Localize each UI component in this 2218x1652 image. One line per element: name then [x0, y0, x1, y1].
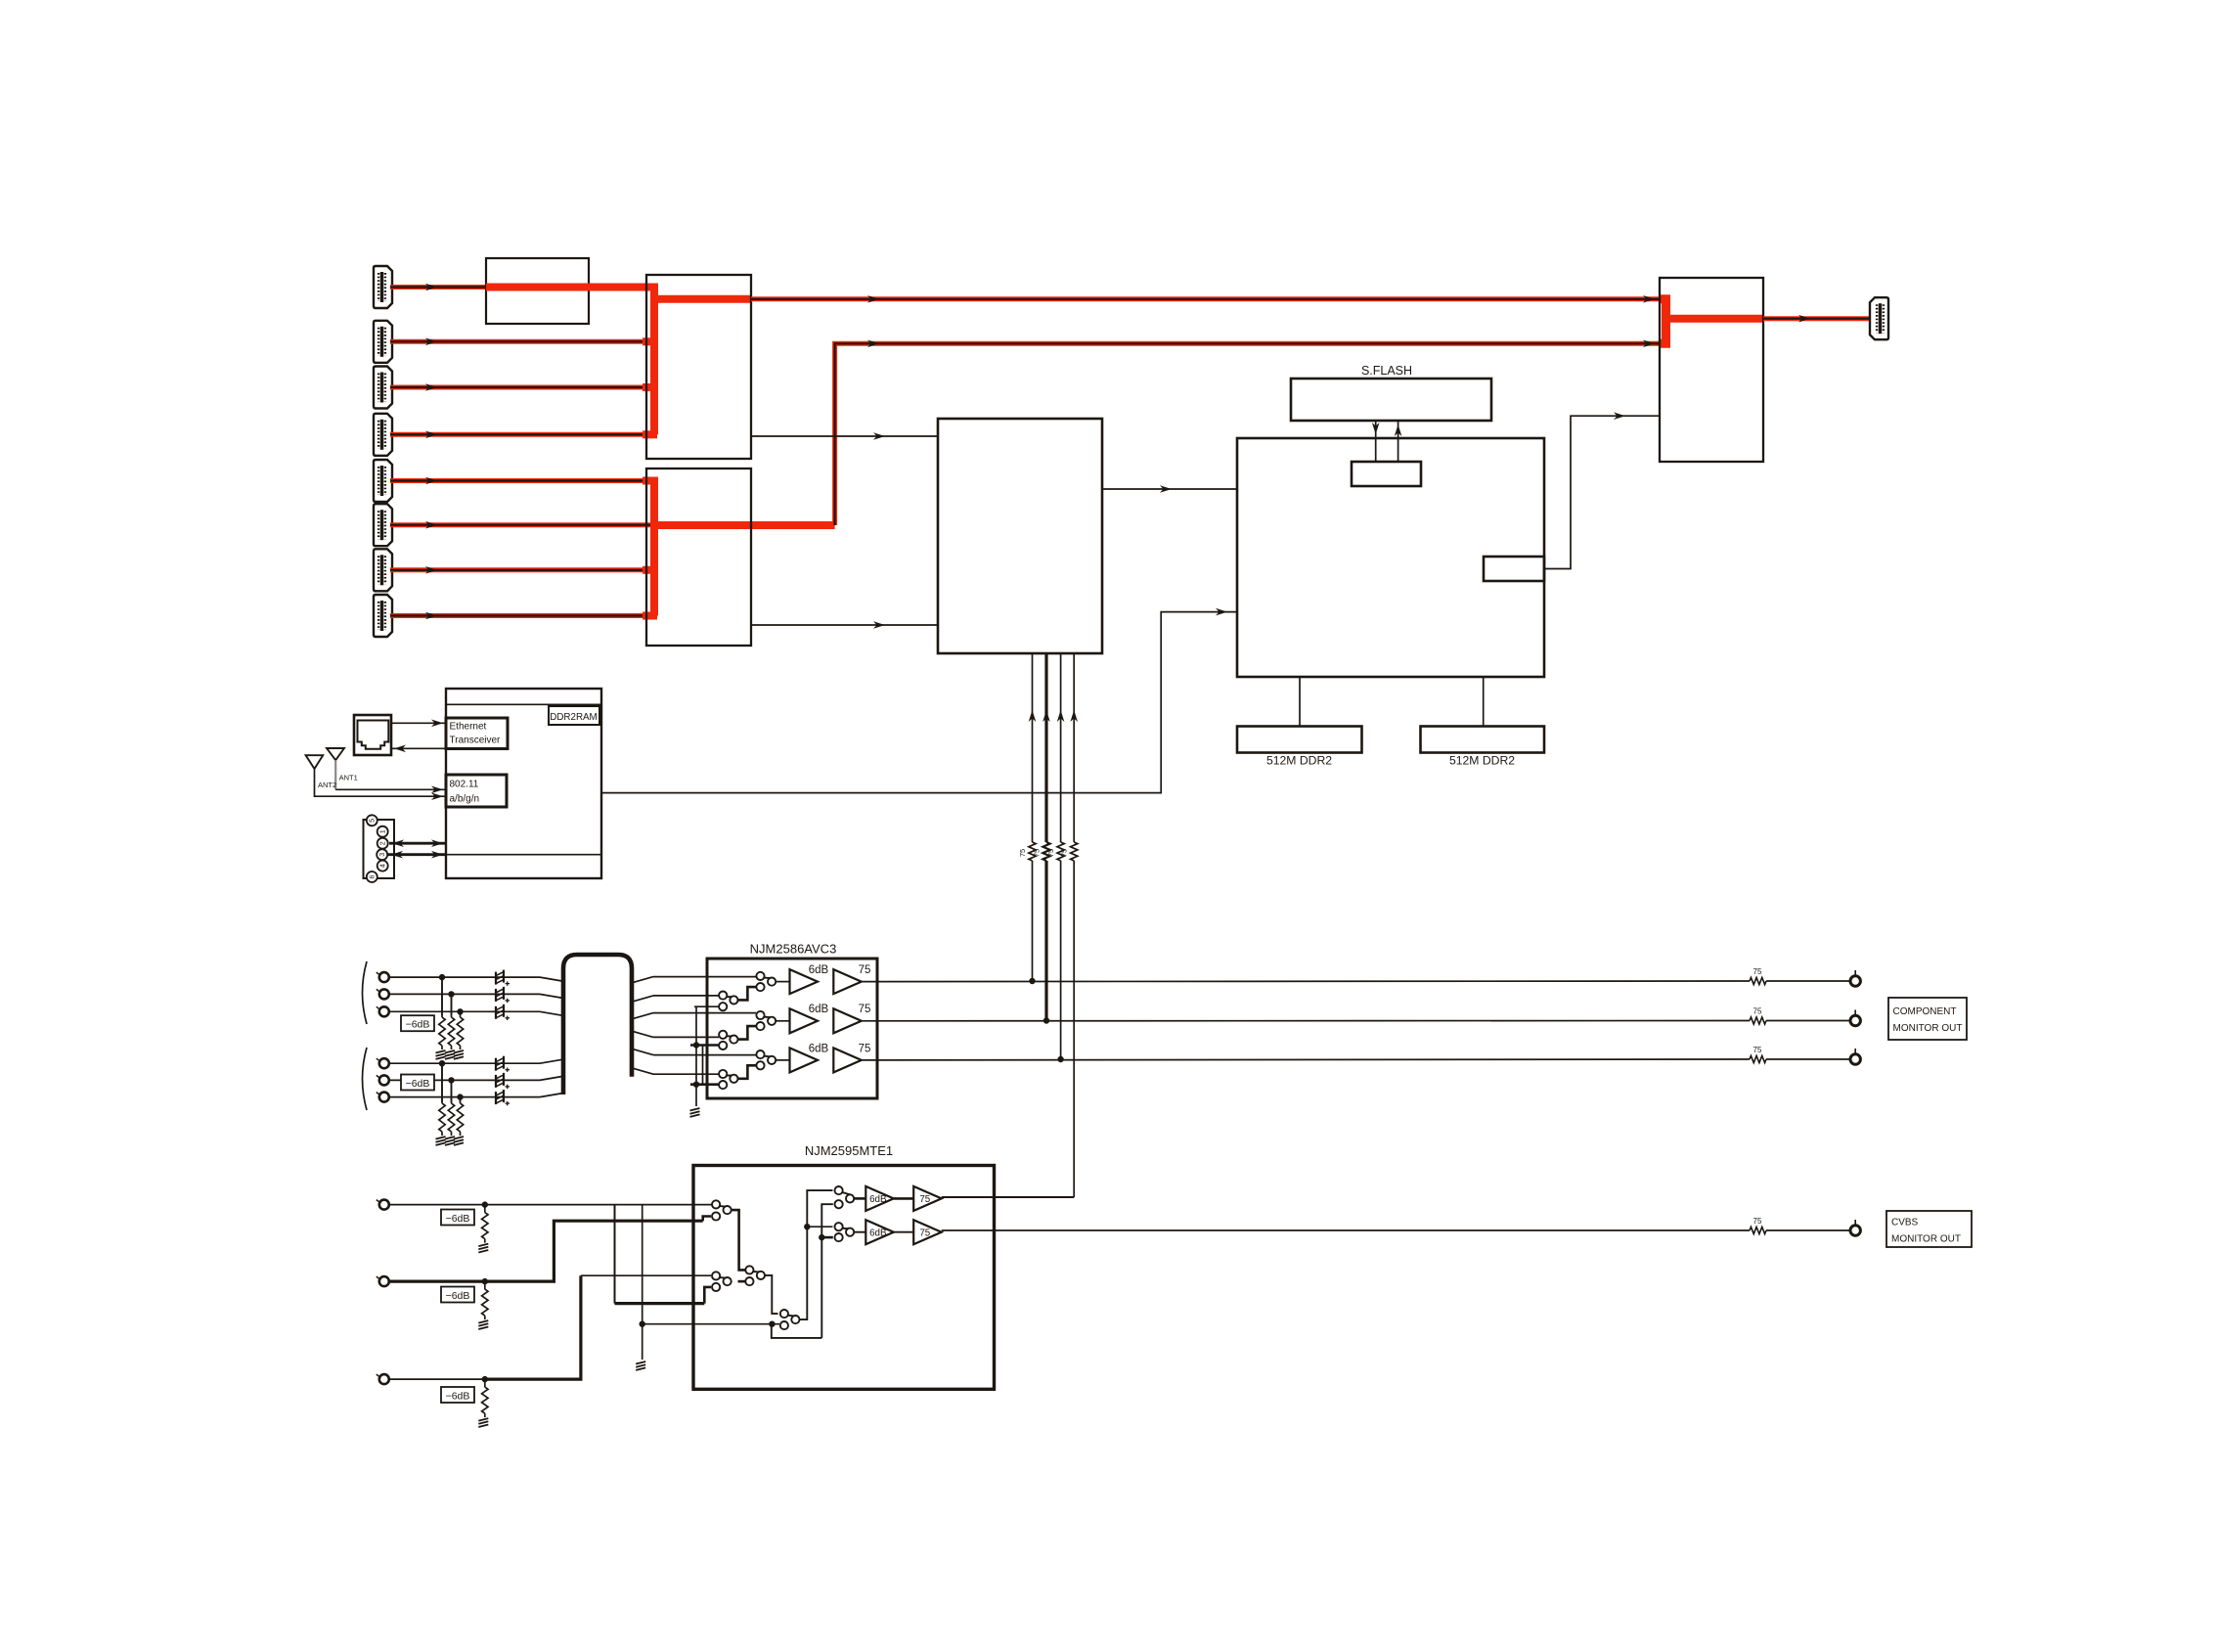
shield symbol line 3 [496, 1005, 510, 1020]
svg-text:ANT2: ANT2 [318, 781, 336, 789]
label NJM2586AVC3 [750, 942, 837, 957]
wire U1 to RX U3 [751, 432, 938, 440]
CVBS input line 2 [389, 1217, 711, 1282]
HDMI input connector J8 [374, 595, 392, 637]
HDMI input connector J6 [374, 504, 392, 546]
HDMI input connector J4 [374, 414, 392, 456]
wire network module to SoC [601, 608, 1237, 793]
HDMI TX U5 [1660, 278, 1763, 462]
CVBS termination resistor 3 [478, 1376, 488, 1427]
red bus in switch U1 [486, 288, 751, 435]
antenna ANT1 [327, 748, 446, 793]
svg-text:DDR2RAM: DDR2RAM [550, 712, 597, 723]
component input terminal 3 [377, 1006, 389, 1016]
svg-text:−6dB: −6dB [406, 1078, 430, 1090]
wire poleA to swC [732, 1210, 746, 1270]
component output line ch1 [862, 980, 1750, 983]
HDMI receiver U3 [938, 419, 1102, 653]
svg-text:75: 75 [1753, 967, 1762, 976]
amp 75 cvbs1 [894, 1186, 942, 1211]
CVBS termination resistor 1 [478, 1201, 488, 1252]
label DDR2RAM [550, 712, 597, 723]
svg-text:2: 2 [378, 841, 387, 845]
channel 3 input switches [719, 1050, 789, 1089]
wire RJ45 to Ethernet [391, 720, 446, 728]
svg-text:75: 75 [1753, 1007, 1762, 1016]
termination resistor group2-2 [445, 1077, 455, 1145]
svg-text:3: 3 [377, 853, 386, 857]
label 802.11 a/b/g/n [450, 780, 480, 805]
svg-text:802.11: 802.11 [450, 780, 479, 790]
svg-text:512M DDR2: 512M DDR2 [1449, 754, 1515, 768]
CVBS return line [942, 1196, 1074, 1198]
net HDMI_A to TX [751, 295, 1660, 303]
wire SoC to DDR2 #2 [1483, 677, 1485, 727]
NJM2595MTE1 box [693, 1166, 995, 1390]
cable bundle [563, 955, 632, 1094]
shield symbol line 4 [496, 1056, 510, 1072]
red highlight wire J1 segment [486, 284, 654, 291]
component input terminal 4 [377, 1058, 389, 1068]
component input terminal 1 [377, 972, 389, 982]
switch B cvbs [712, 1272, 732, 1291]
svg-text:75: 75 [1018, 849, 1027, 857]
cable output line 3 [633, 1013, 756, 1019]
cable output line 4 [633, 1031, 719, 1037]
red bus in switch U2 [643, 481, 835, 616]
switch A cvbs [712, 1200, 732, 1220]
svg-text:Ethernet: Ethernet [450, 722, 487, 733]
svg-text:75: 75 [1753, 1046, 1762, 1054]
svg-text:6dB: 6dB [869, 1228, 887, 1238]
HDMI input connector J1 [374, 266, 392, 308]
wire J7 to HDMI switch [390, 566, 654, 574]
wire J5 to HDMI switch [390, 477, 654, 485]
amp 6dB cvbs1 [865, 1186, 894, 1211]
svg-text:−6dB: −6dB [446, 1290, 470, 1302]
svg-text:4: 4 [378, 864, 387, 868]
amp 75 cvbs2 [894, 1220, 942, 1244]
component input terminal 5 [377, 1075, 389, 1085]
attenuator box -6dB group1 [401, 1015, 434, 1031]
component output line ch3 [862, 1058, 1750, 1061]
flash interface box [1352, 462, 1421, 486]
label NJM2595MTE1 [805, 1143, 893, 1158]
swF step down [819, 1204, 833, 1338]
svg-text:75: 75 [859, 964, 871, 976]
red bus in HDMI TX U5 [1660, 299, 1763, 344]
svg-text:5: 5 [368, 819, 377, 823]
HDMI output connector [1870, 297, 1888, 339]
wire J4 to HDMI switch [390, 431, 654, 439]
CVBS input terminal 1 [377, 1200, 389, 1210]
CVBS output terminal [1850, 1220, 1860, 1235]
wire J2 to HDMI switch [390, 338, 654, 346]
wire U4 to HDMI TX U5 [1544, 412, 1660, 568]
HDMI input connector J2 [374, 321, 392, 363]
termination resistor group2-3 [454, 1094, 464, 1145]
S.FLASH box [1291, 379, 1491, 421]
switch C cvbs [745, 1266, 765, 1285]
CVBS input line 1 [389, 1204, 715, 1206]
wire poleF to amp [854, 1197, 865, 1200]
label ANT1 [339, 774, 358, 782]
network box divider bottom [446, 854, 601, 856]
HDMI switch U2 [646, 469, 751, 646]
wire SoC to DDR2 #1 [1299, 677, 1301, 727]
RJ45 connector [354, 715, 391, 755]
svg-text:NJM2586AVC3: NJM2586AVC3 [750, 942, 837, 957]
label 512M DDR2 #1 [1266, 754, 1332, 768]
wire J8 to HDMI switch [390, 612, 654, 620]
channel 2 input switches [719, 1011, 789, 1049]
svg-text:CVBS: CVBS [1891, 1218, 1919, 1228]
svg-text:−6dB: −6dB [446, 1391, 470, 1403]
label ANT2 [318, 781, 336, 789]
network module box [446, 689, 601, 878]
net HDMI_B to TX [835, 340, 1660, 526]
bracket component group 1 [363, 961, 368, 1024]
component input line 1 [389, 977, 563, 981]
svg-text:ANT1: ANT1 [339, 774, 358, 782]
termination resistor group2-1 [436, 1060, 446, 1145]
ground bus NJM2586 [690, 1006, 720, 1117]
cable output line 5 [633, 1049, 756, 1055]
attenuator box -6dB group2 [401, 1075, 434, 1091]
svg-text:75: 75 [1046, 849, 1055, 857]
component input line 3 [389, 1011, 563, 1015]
amp 6dB cvbs2 [865, 1220, 894, 1244]
video out interface box [1484, 557, 1544, 581]
bracket component group 2 [363, 1048, 368, 1110]
component output terminal ch2 [1850, 1010, 1860, 1026]
NJM2586AVC3 box [707, 959, 877, 1098]
CVBS input line 3 [389, 1275, 711, 1379]
svg-text:6dB: 6dB [809, 1004, 829, 1015]
attenuator box -6dB cvbs1 [441, 1210, 474, 1226]
return line 3 with resistor 75 [1046, 653, 1064, 1062]
svg-text:S.FLASH: S.FLASH [1361, 364, 1412, 378]
wire U2 to RX U3 [751, 621, 938, 629]
switch G cvbs [835, 1223, 855, 1241]
component input line 6 [389, 1094, 563, 1097]
CVBS input terminal 3 [377, 1374, 389, 1384]
label Ethernet Transceiver [450, 722, 502, 746]
component output line ch2 [862, 1020, 1750, 1022]
HDMI input connector J3 [374, 367, 392, 409]
wire poleG to amp [854, 1231, 865, 1233]
component input line 4 [389, 1059, 563, 1063]
return line 4 with resistor 75 [1060, 653, 1078, 1197]
CVBS ground branch [636, 1205, 779, 1370]
svg-text:75: 75 [1060, 849, 1069, 857]
HDMI switch U1 [646, 275, 751, 459]
svg-text:MONITOR OUT: MONITOR OUT [1891, 1234, 1961, 1245]
wire DIN pin3 to module [388, 851, 446, 859]
svg-text:6dB: 6dB [809, 964, 829, 976]
wire poleB to swC [738, 1280, 746, 1283]
component output terminal ch1 [1850, 970, 1860, 986]
switch E cvbs [780, 1310, 800, 1329]
network box divider top [446, 703, 601, 705]
label COMPONENT MONITOR OUT [1888, 998, 1967, 1040]
shield symbol line 1 [496, 970, 510, 986]
svg-text:75: 75 [859, 1004, 871, 1015]
EQ box [486, 258, 589, 324]
swE throw2 hook [772, 1325, 822, 1338]
label CVBS MONITOR OUT [1886, 1211, 1972, 1247]
label S.FLASH [1361, 364, 1412, 378]
termination resistor group1-3 [454, 1008, 464, 1059]
termination resistor group1-2 [445, 991, 455, 1059]
802.11 box [446, 775, 507, 807]
output resistor 75 ch1 [1750, 967, 1850, 985]
output resistor 75 ch2 [1750, 1007, 1850, 1025]
svg-text:75: 75 [919, 1228, 930, 1238]
CVBS output resistor 75 [1750, 1217, 1850, 1234]
svg-text:6dB: 6dB [869, 1194, 887, 1205]
CVBS input terminal 2 [377, 1276, 389, 1286]
HDMI input connector J5 [374, 460, 392, 502]
svg-text:6: 6 [368, 875, 377, 879]
flash bus lines [1372, 421, 1402, 462]
DDR2 memory #1 [1237, 727, 1362, 753]
svg-text:1: 1 [378, 829, 387, 833]
net TX to output connector [1763, 315, 1872, 323]
attenuator box -6dB cvbs3 [441, 1387, 474, 1403]
wire U3 to SoC U4 [1102, 485, 1237, 493]
component input terminal 6 [377, 1093, 389, 1102]
CVBS input1 branch [615, 1205, 712, 1304]
svg-text:−6dB: −6dB [446, 1213, 470, 1225]
return line 2 with resistor 75 [1033, 653, 1050, 1024]
DIN control connector [364, 815, 395, 882]
cable output line 2 [633, 996, 719, 1002]
Ethernet transceiver box [446, 718, 508, 749]
svg-text:75: 75 [859, 1043, 871, 1054]
SoC U4 [1237, 438, 1544, 677]
return line 1 with resistor 75 [1018, 653, 1036, 984]
component input line 2 [389, 994, 563, 998]
svg-text:75: 75 [919, 1194, 930, 1205]
shield symbol line 2 [496, 987, 510, 1003]
cable output line 6 [633, 1068, 719, 1074]
shield symbol line 6 [496, 1090, 510, 1105]
label 512M DDR2 #2 [1449, 754, 1515, 768]
svg-text:−6dB: −6dB [406, 1019, 430, 1031]
component input line 5 [389, 1076, 563, 1080]
wire Ethernet to RJ45 [391, 745, 446, 753]
amp 6dB ch3 [790, 1043, 829, 1072]
HDMI input connector J7 [374, 549, 392, 591]
amp 75 ch1 [833, 964, 870, 994]
CVBS termination resistor 2 [478, 1278, 488, 1329]
wire poleC to swE [765, 1275, 778, 1314]
cable output line 1 [633, 977, 756, 983]
wire DIN pin2 to module [389, 839, 446, 847]
svg-text:NJM2595MTE1: NJM2595MTE1 [805, 1143, 893, 1158]
termination resistor group1-1 [436, 974, 446, 1059]
output resistor 75 ch3 [1750, 1046, 1850, 1063]
wire poleE up [799, 1190, 832, 1319]
attenuator box -6dB cvbs2 [441, 1287, 474, 1303]
svg-text:512M DDR2: 512M DDR2 [1266, 754, 1332, 768]
amp 75 ch2 [833, 1004, 870, 1033]
component input terminal 2 [377, 989, 389, 999]
DDR2 memory #2 [1421, 727, 1545, 753]
component output terminal ch3 [1850, 1049, 1860, 1064]
shield symbol line 5 [496, 1073, 510, 1089]
switch F cvbs [835, 1186, 855, 1208]
svg-text:MONITOR OUT: MONITOR OUT [1893, 1023, 1963, 1034]
amp 75 ch3 [833, 1043, 870, 1072]
channel 1 input switches [719, 972, 789, 1010]
svg-text:Transceiver: Transceiver [450, 736, 502, 746]
wire J3 to HDMI switch [390, 383, 654, 391]
DDR2RAM box [549, 706, 599, 725]
svg-text:6dB: 6dB [809, 1043, 829, 1054]
CVBS output line [942, 1229, 1750, 1231]
amp 6dB ch2 [790, 1004, 829, 1033]
svg-text:a/b/g/n: a/b/g/n [450, 794, 480, 805]
antenna ANT2 [306, 755, 446, 800]
wire J6 to HDMI switch [390, 521, 654, 529]
amp 6dB ch1 [790, 964, 829, 994]
svg-text:75: 75 [1033, 849, 1042, 857]
svg-text:COMPONENT: COMPONENT [1893, 1006, 1957, 1017]
svg-text:75: 75 [1753, 1217, 1762, 1226]
wire J1 to HDMI switch [390, 284, 654, 291]
